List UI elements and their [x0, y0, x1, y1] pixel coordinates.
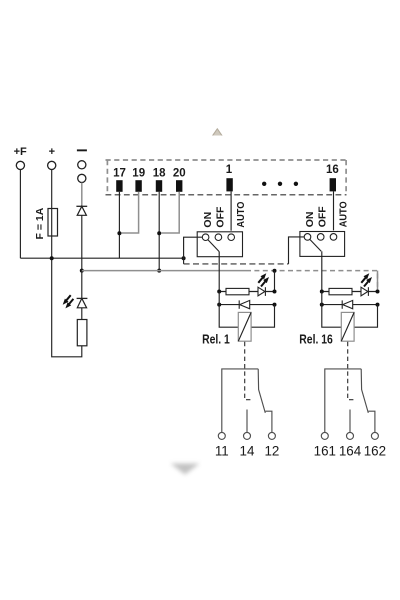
wire K1 right column to coil: [251, 305, 274, 328]
relay K1 snubber block: [202, 269, 276, 400]
relay K16 snubber block: [299, 271, 379, 400]
svg-text:14: 14: [240, 443, 255, 458]
LED K1 indicator: [258, 287, 265, 296]
contact 162 leg: [368, 411, 375, 432]
switch S2 box: [300, 232, 345, 257]
S2 position contacts: [304, 234, 337, 241]
node K1 diode row left: [217, 303, 221, 307]
svg-text:OFF: OFF: [215, 206, 227, 228]
coil K16: [341, 312, 354, 341]
node K16 LED row right: [376, 290, 380, 294]
wire K1 diode row: [219, 304, 274, 306]
terminal circle 164: [347, 432, 354, 439]
pin 16: [326, 164, 339, 191]
wire pin 1 to switch S1 AUTO: [230, 191, 232, 230]
mechanical link K1 (dashed): [245, 342, 251, 400]
wire R1 bottom loop to + line: [52, 258, 82, 357]
wire pin 18 down across + rail to − rail: [158, 192, 160, 271]
wire riser to S2 ON: [289, 237, 305, 264]
− rail gray (solid part): [82, 270, 246, 272]
scroll arrow down (page decoration): [171, 464, 200, 475]
fuse F1: [48, 209, 58, 237]
+ rail horizontal: [20, 257, 183, 259]
terminal circle 162: [371, 432, 378, 439]
contact 14 leg (NO): [246, 410, 248, 433]
pin 1: [226, 164, 233, 191]
wire pin 19 (gray bend to 17): [121, 192, 138, 233]
switch S1 box: [197, 232, 242, 257]
S1 position contacts: [202, 234, 234, 241]
node − rail / K1 riser: [273, 269, 277, 273]
relay K1 contact set: [218, 369, 275, 440]
scroll arrow up (page decoration): [212, 128, 223, 136]
terminal +F: [14, 146, 27, 169]
svg-text:11: 11: [215, 443, 229, 458]
svg-text:162: 162: [364, 443, 386, 458]
wire S1 output down to relay K1: [218, 252, 220, 292]
wire + line down: [51, 170, 53, 259]
node + rail / + line: [50, 256, 54, 260]
module boundary dashed (black, bottom of connector box): [106, 194, 347, 196]
svg-text:F = 1A: F = 1A: [34, 207, 46, 239]
diode K16 freewheel: [342, 300, 353, 308]
svg-text:AUTO: AUTO: [236, 201, 248, 227]
wire K1 riser: [274, 271, 276, 292]
node K1 LED row left: [217, 290, 221, 294]
pin 19: [132, 168, 145, 192]
wire K16 diode row: [322, 304, 378, 306]
svg-text:Rel. 16: Rel. 16: [299, 332, 333, 346]
wire K16 riser (gray from rail corner): [377, 271, 379, 292]
wire S2 output down to relay K16: [321, 251, 323, 291]
contact arm K16 (NC to 162): [361, 369, 368, 413]
svg-text:12: 12: [264, 443, 279, 458]
LED H1 emission arrows: [63, 295, 74, 308]
wire K16 right column to coil: [354, 305, 377, 328]
svg-text:+: +: [49, 146, 55, 158]
resistor K16 series: [329, 288, 352, 294]
pin 20: [173, 168, 186, 192]
node 18/20 junction: [157, 231, 161, 235]
contact bar K1 (terminal 11 common): [222, 369, 258, 432]
svg-text:17: 17: [113, 168, 126, 180]
node K16 diode row right: [376, 303, 380, 307]
wire K1 LED row: [219, 291, 274, 293]
connector dashed box (gray): [106, 160, 348, 194]
S2 lever: [310, 239, 322, 251]
LED K16 emission arrows: [361, 273, 372, 286]
terminal − (double contact): [77, 149, 87, 182]
svg-text:Rel. 1: Rel. 1: [202, 332, 230, 346]
contact 164 leg (NO): [349, 410, 351, 433]
ellipsis dots: [262, 182, 298, 186]
LED H1 power indicator: [77, 298, 88, 307]
contact 12 leg: [265, 411, 272, 432]
wire K16 LED row: [322, 291, 378, 293]
relay K16 contact set: [321, 369, 378, 440]
svg-text:AUTO: AUTO: [338, 201, 350, 227]
terminal +: [48, 146, 56, 169]
wire +F down to + rail: [19, 170, 21, 259]
wire − line down to gray rail: [81, 215, 83, 270]
node K16 LED row left: [320, 290, 324, 294]
node − / gray rail junction: [80, 269, 84, 273]
svg-text:OFF: OFF: [317, 206, 329, 228]
contact bar K16 (terminal 161 common): [325, 369, 361, 432]
wire − gray segment: [81, 183, 83, 206]
+ rail dashed continuation to S2: [184, 263, 289, 265]
terminal circle 14: [244, 432, 251, 439]
terminal circle 161: [321, 432, 328, 439]
diode K1 freewheel: [239, 300, 250, 308]
terminal circle 12: [268, 432, 275, 439]
node 18 / − rail junction: [157, 269, 161, 273]
pin 17: [113, 168, 126, 192]
svg-text:161: 161: [314, 443, 336, 458]
svg-text:ON: ON: [304, 212, 316, 228]
svg-text:18: 18: [153, 168, 166, 180]
node K16 diode row left: [320, 303, 324, 307]
− rail gray dashed continuation to relay K16: [246, 271, 378, 292]
contact arm K1 (NC to 12): [258, 369, 265, 413]
node K1 LED row right: [273, 290, 277, 294]
terminal circle 11: [218, 432, 225, 439]
pin 18: [153, 168, 166, 192]
wire gray rail down-leg to LED H1: [81, 271, 83, 299]
svg-text:+F: +F: [14, 146, 27, 158]
svg-text:1: 1: [226, 164, 233, 176]
resistor R1: [77, 308, 87, 346]
coil K1: [238, 312, 251, 341]
wire K16 left column to coil: [322, 292, 342, 328]
S1 lever: [208, 240, 219, 252]
wire S1 ON to + rail (L-bend): [184, 237, 203, 264]
svg-text:19: 19: [132, 168, 145, 180]
wire pin 17 down to + rail: [118, 192, 120, 258]
resistor K1 series: [226, 288, 249, 294]
diode V1 (reverse protection): [76, 206, 87, 215]
node 17/19 junction: [117, 231, 121, 235]
node K1 diode row right: [273, 303, 277, 307]
LED K16 indicator: [361, 287, 368, 296]
svg-text:164: 164: [339, 443, 362, 458]
svg-text:ON: ON: [202, 212, 214, 228]
wire pin 16 to switch S2 AUTO: [333, 191, 335, 230]
mechanical link K16 (dashed): [348, 342, 354, 400]
LED K1 emission arrows: [258, 273, 269, 286]
node + rail end at switch S1 branch: [182, 256, 186, 260]
svg-text:20: 20: [173, 168, 186, 180]
svg-text:16: 16: [326, 164, 339, 176]
wire K1 left column to coil: [219, 292, 238, 328]
wire pin 20 (gray bend to 18): [161, 192, 179, 233]
